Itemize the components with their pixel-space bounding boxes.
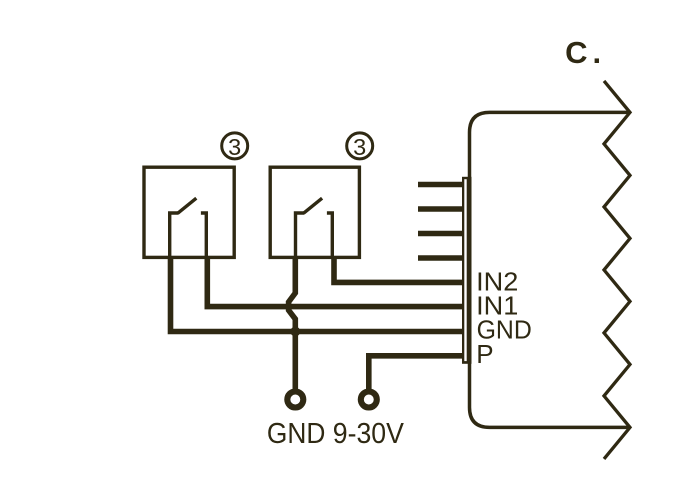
svg-text:C.: C. xyxy=(565,35,606,70)
svg-text:3: 3 xyxy=(228,134,241,160)
svg-text:3: 3 xyxy=(353,134,366,160)
svg-text:P: P xyxy=(476,339,493,369)
svg-text:9-30V: 9-30V xyxy=(333,418,405,450)
svg-text:GND: GND xyxy=(267,418,326,450)
